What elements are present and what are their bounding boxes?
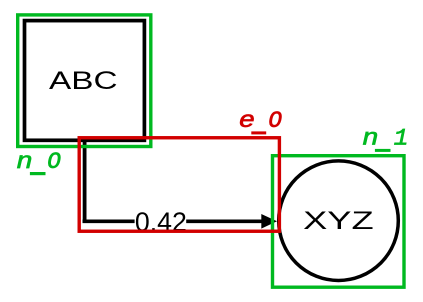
arrowhead <box>261 214 277 229</box>
wire edge vertical segment <box>83 141 87 222</box>
node ABC square <box>25 21 145 141</box>
node bounding box n_1 <box>273 156 405 288</box>
wire edge horizontal segment <box>83 220 263 224</box>
node bounding box n_0 <box>18 15 151 147</box>
edge bounding box e_0 <box>79 138 279 232</box>
svg-text:ABC: ABC <box>49 67 118 95</box>
edge weight 0.42 background <box>135 211 187 232</box>
svg-text:XYZ: XYZ <box>303 207 374 235</box>
node XYZ circle <box>279 161 399 281</box>
